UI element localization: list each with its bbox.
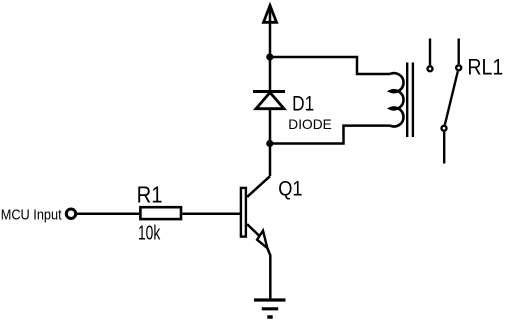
svg-text:Q1: Q1	[278, 177, 302, 200]
svg-text:MCU Input: MCU Input	[1, 205, 62, 222]
svg-text:RL1: RL1	[467, 56, 503, 80]
svg-text:10k: 10k	[138, 221, 161, 244]
svg-text:DIODE: DIODE	[288, 116, 331, 132]
svg-text:R1: R1	[137, 181, 163, 208]
svg-text:D1: D1	[292, 92, 314, 116]
